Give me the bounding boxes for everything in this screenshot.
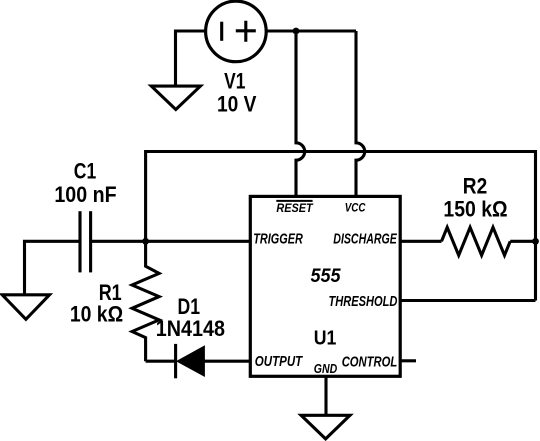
ground (GND pin) xyxy=(301,415,350,439)
svg-text:555: 555 xyxy=(310,265,341,287)
svg-text:GND: GND xyxy=(314,362,337,376)
wire R1 to diode cathode xyxy=(146,360,176,363)
resistor R1 xyxy=(132,241,159,361)
svg-text:TRIGGER: TRIGGER xyxy=(253,231,303,247)
svg-text:10 kΩ: 10 kΩ xyxy=(70,302,123,327)
node TRIGGER junction xyxy=(142,238,149,245)
svg-text:CONTROL: CONTROL xyxy=(342,354,398,370)
pin label RESET (with overline) xyxy=(276,201,314,215)
wire R2 to right rail xyxy=(510,240,535,243)
wire THRESHOLD feedback xyxy=(400,299,535,302)
svg-text:RESET: RESET xyxy=(276,201,314,215)
svg-text:1N4148: 1N4148 xyxy=(156,316,225,341)
svg-text:100 nF: 100 nF xyxy=(54,182,116,207)
wire top feedback rail xyxy=(146,152,536,301)
svg-text:DISCHARGE: DISCHARGE xyxy=(333,231,397,247)
diode D1 xyxy=(176,344,205,378)
node junction at V1+ xyxy=(293,28,300,35)
label D1 1N4148 xyxy=(156,294,225,341)
svg-text:10 V: 10 V xyxy=(217,92,257,117)
voltage source V1 xyxy=(206,1,267,62)
resistor R2 xyxy=(442,227,511,255)
wire C1 to TRIGGER xyxy=(91,240,251,243)
wire VCC branch with hop xyxy=(356,31,365,196)
IC U1 555 timer body xyxy=(250,196,400,376)
wire GND pin lead xyxy=(324,376,327,415)
wire ground to C1 xyxy=(25,241,81,295)
svg-text:THRESHOLD: THRESHOLD xyxy=(329,294,398,310)
capacitor C1 xyxy=(80,211,91,272)
svg-text:C1: C1 xyxy=(74,158,96,183)
svg-text:V1: V1 xyxy=(224,69,245,94)
ground (left, C1) xyxy=(2,295,49,320)
wire DISCHARGE lead xyxy=(400,240,441,243)
label R1 10 kOhm xyxy=(70,280,123,327)
svg-text:R2: R2 xyxy=(463,173,487,198)
svg-text:U1: U1 xyxy=(314,327,337,349)
wire V1 right lead to corner xyxy=(266,29,356,32)
label R2 150 kOhm xyxy=(443,173,507,221)
wire CONTROL stub xyxy=(400,359,416,362)
svg-text:VCC: VCC xyxy=(345,201,366,215)
wire RESET branch with hop xyxy=(296,31,305,196)
label C1 100 nF xyxy=(54,158,116,206)
ground (below V1) xyxy=(151,86,200,109)
label V1 10 V xyxy=(217,69,257,117)
svg-text:OUTPUT: OUTPUT xyxy=(255,354,304,370)
wire diode anode to OUTPUT xyxy=(204,360,250,363)
svg-text:150 kΩ: 150 kΩ xyxy=(443,197,507,222)
wire V1 left lead xyxy=(176,31,206,86)
node R2 right junction xyxy=(532,238,539,245)
